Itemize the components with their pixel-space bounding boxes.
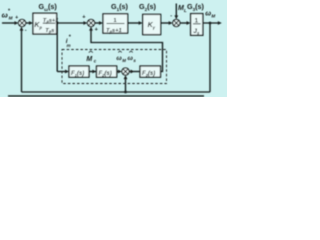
- svg-text:G3(s): G3(s): [187, 2, 205, 12]
- svg-text:Gω(s): Gω(s): [39, 2, 58, 12]
- svg-text:M: M: [211, 14, 215, 19]
- svg-text:Tβs+1: Tβs+1: [106, 28, 122, 34]
- svg-text:1: 1: [195, 18, 199, 25]
- svg-text:Tβs: Tβs: [45, 28, 55, 34]
- svg-text:G1(s): G1(s): [111, 2, 129, 12]
- svg-text:+: +: [15, 15, 18, 21]
- svg-text:M: M: [86, 56, 92, 63]
- svg-text:G2(s): G2(s): [139, 2, 157, 12]
- svg-text:т: т: [67, 43, 71, 48]
- svg-text:-: -: [25, 28, 27, 34]
- svg-text:p: p: [38, 25, 42, 30]
- svg-text:M: M: [122, 58, 126, 63]
- svg-text:F1(s): F1(s): [71, 71, 84, 77]
- svg-text:1: 1: [114, 18, 117, 24]
- svg-text:ω: ω: [205, 11, 211, 18]
- svg-text:M: M: [9, 15, 13, 20]
- svg-text:F3(s): F3(s): [142, 71, 155, 77]
- svg-text:ω: ω: [2, 10, 8, 19]
- svg-text:F2(s): F2(s): [99, 71, 112, 77]
- svg-text:Tβs+1: Tβs+1: [43, 18, 59, 24]
- svg-text:-: -: [170, 13, 172, 19]
